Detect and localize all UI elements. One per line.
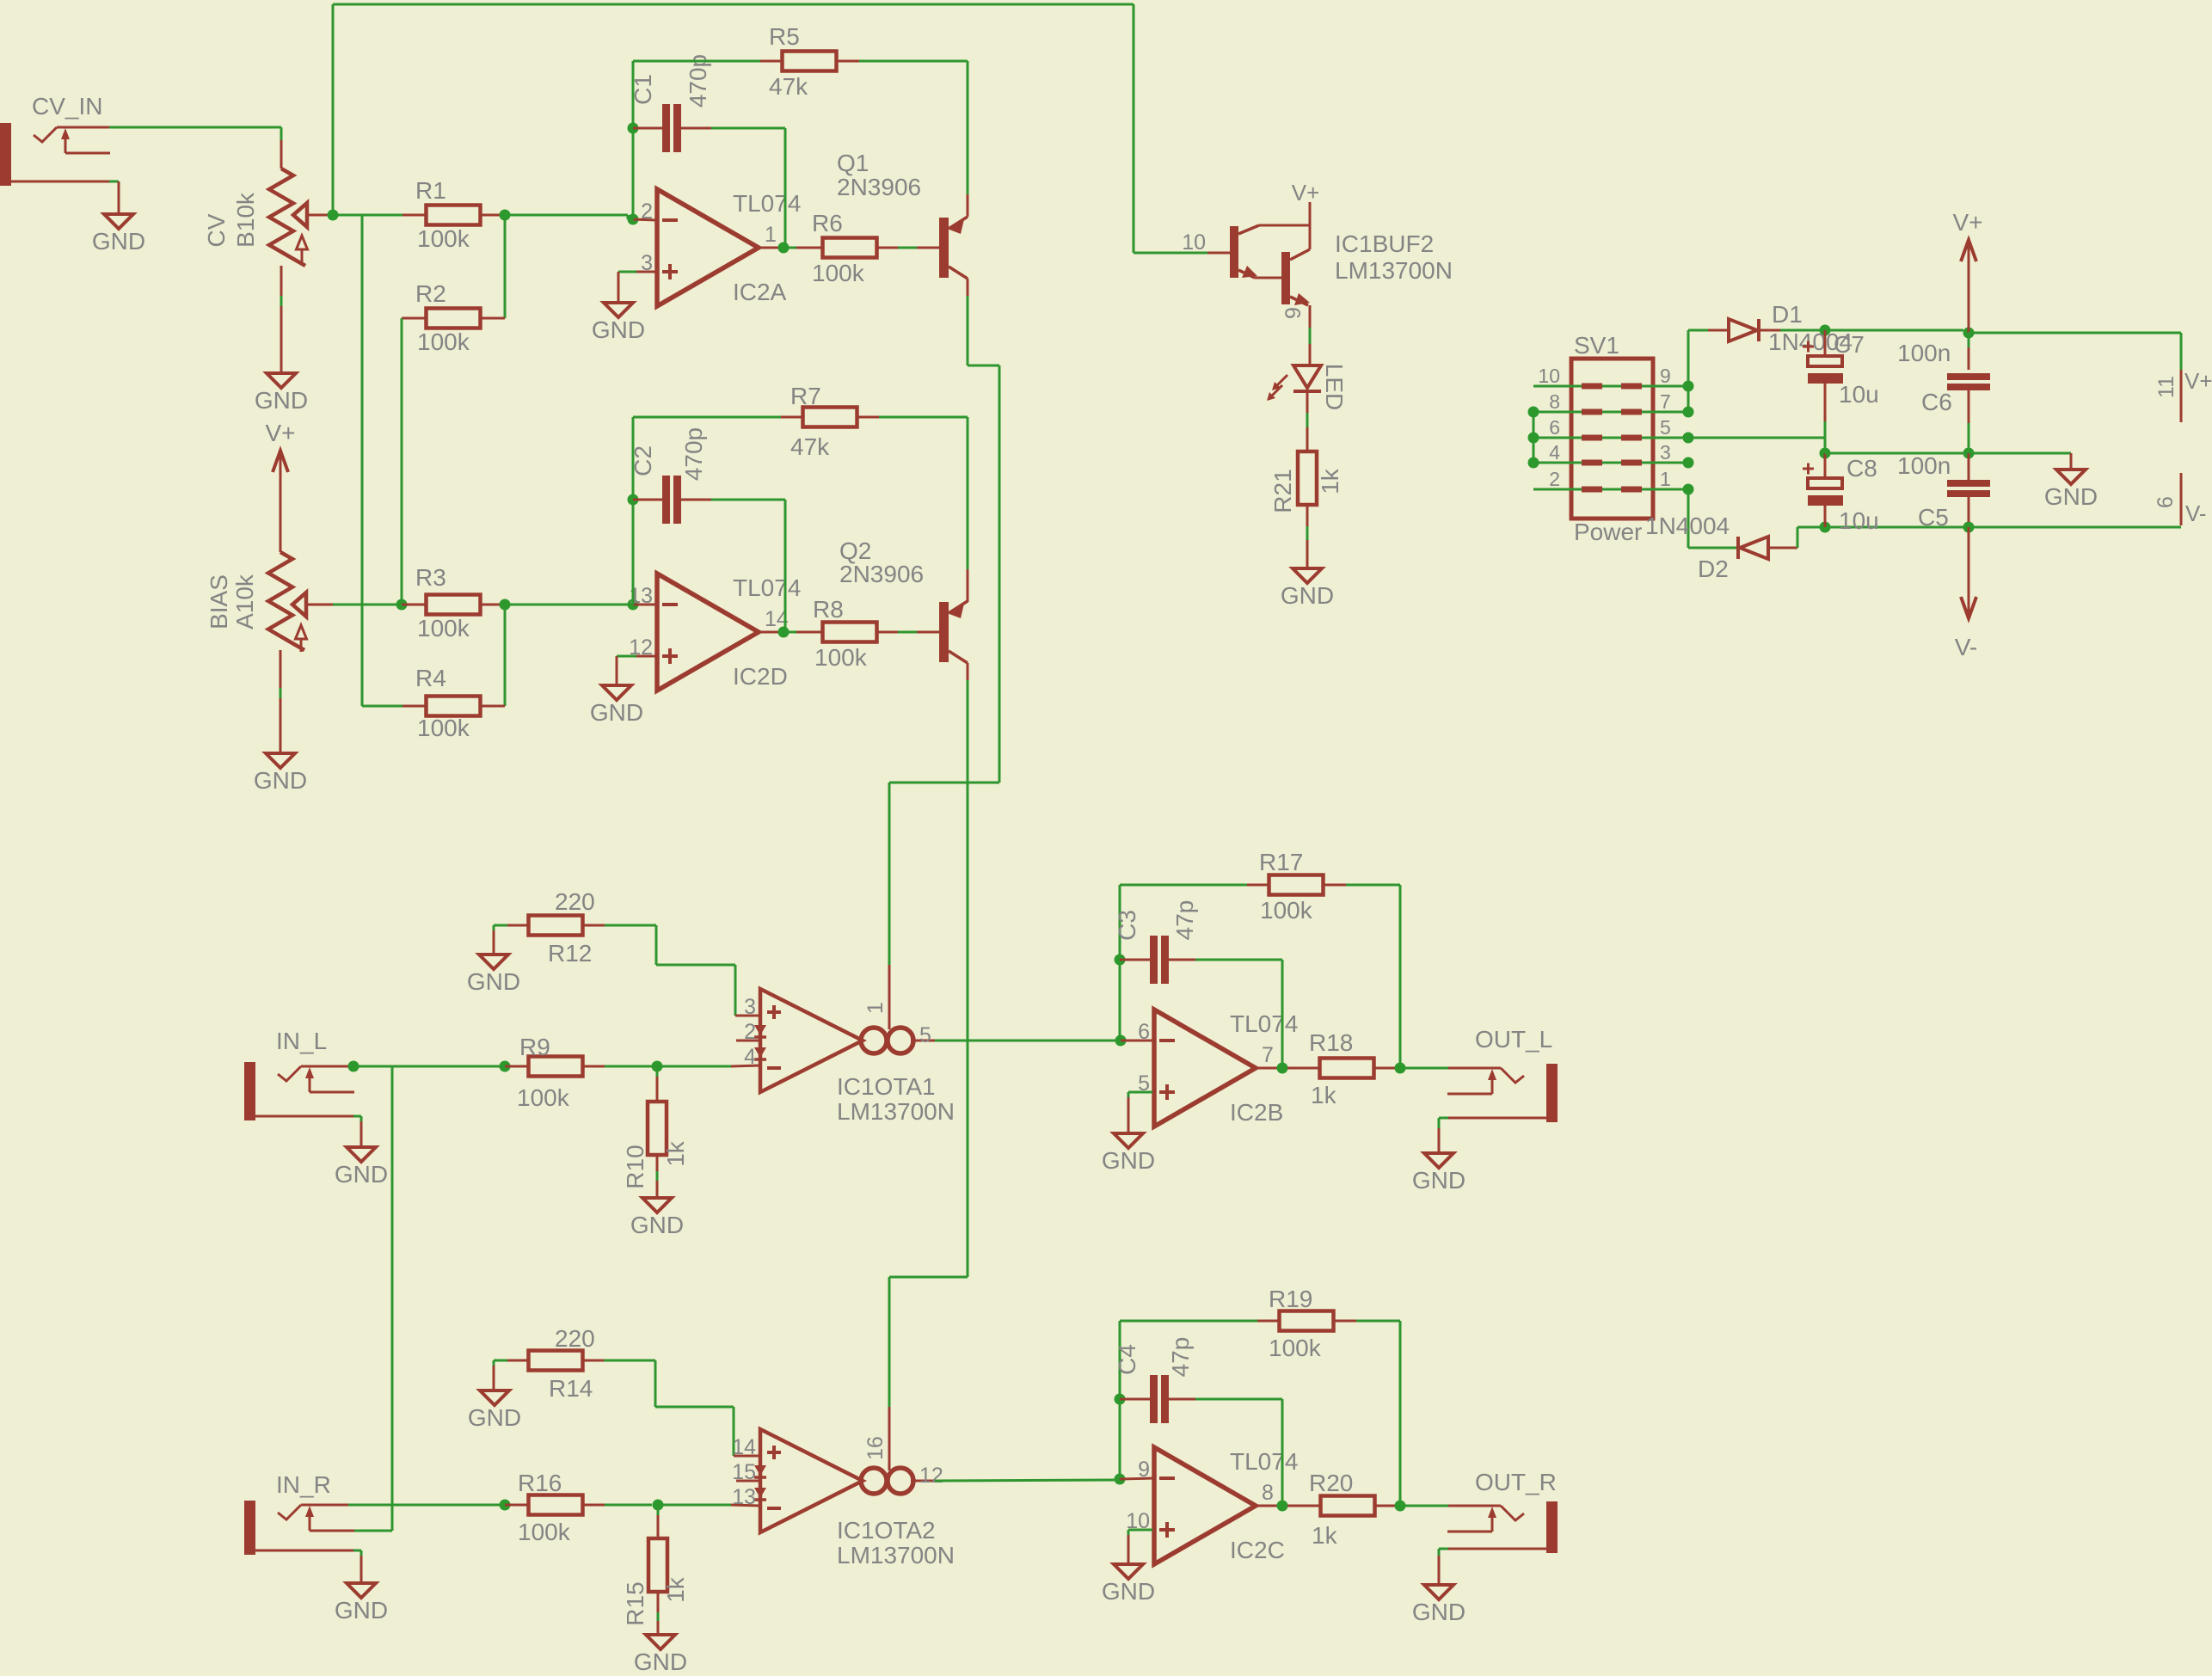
svg-text:GND: GND xyxy=(590,699,643,726)
svg-text:220: 220 xyxy=(555,1325,595,1352)
svg-text:7: 7 xyxy=(1660,390,1671,413)
svg-text:SV1: SV1 xyxy=(1574,332,1619,359)
svg-text:C8: C8 xyxy=(1846,455,1877,482)
svg-text:V-: V- xyxy=(1955,634,1977,660)
svg-text:100k: 100k xyxy=(517,1084,570,1111)
svg-text:C4: C4 xyxy=(1114,1344,1140,1375)
svg-text:GND: GND xyxy=(1281,582,1334,609)
svg-text:GND: GND xyxy=(2044,483,2098,510)
svg-text:100k: 100k xyxy=(417,615,470,642)
svg-text:2: 2 xyxy=(1549,468,1560,490)
svg-text:IN_L: IN_L xyxy=(276,1028,327,1054)
svg-text:R18: R18 xyxy=(1309,1029,1353,1056)
svg-text:47p: 47p xyxy=(1167,1337,1194,1378)
svg-text:47k: 47k xyxy=(769,73,808,100)
svg-text:GND: GND xyxy=(1412,1167,1465,1194)
svg-text:5: 5 xyxy=(1660,416,1671,439)
svg-text:V+: V+ xyxy=(2184,368,2212,394)
svg-text:3: 3 xyxy=(744,995,756,1019)
svg-text:9: 9 xyxy=(1281,307,1306,319)
svg-text:1k: 1k xyxy=(1312,1522,1338,1549)
svg-text:R21: R21 xyxy=(1269,469,1296,513)
svg-text:1N4004: 1N4004 xyxy=(1645,513,1730,539)
svg-text:D2: D2 xyxy=(1698,556,1729,582)
svg-text:100n: 100n xyxy=(1897,340,1951,366)
svg-text:R14: R14 xyxy=(549,1375,593,1402)
svg-text:GND: GND xyxy=(630,1212,684,1238)
svg-text:1k: 1k xyxy=(1317,468,1343,494)
svg-text:R15: R15 xyxy=(622,1581,648,1625)
svg-text:C1: C1 xyxy=(630,74,656,105)
svg-text:R7: R7 xyxy=(790,383,821,409)
svg-text:B10k: B10k xyxy=(232,192,259,248)
svg-text:GND: GND xyxy=(335,1161,388,1188)
svg-text:4: 4 xyxy=(1549,441,1560,464)
svg-text:47k: 47k xyxy=(790,433,830,460)
svg-text:GND: GND xyxy=(92,228,145,255)
svg-text:16: 16 xyxy=(863,1436,888,1460)
svg-text:220: 220 xyxy=(555,888,595,915)
svg-text:A10k: A10k xyxy=(231,574,258,629)
svg-text:R10: R10 xyxy=(622,1145,648,1188)
svg-text:GND: GND xyxy=(255,387,308,414)
svg-text:R8: R8 xyxy=(813,596,844,623)
svg-text:13: 13 xyxy=(732,1485,756,1509)
svg-text:2N3906: 2N3906 xyxy=(837,174,921,200)
svg-text:10u: 10u xyxy=(1839,381,1879,408)
svg-text:GND: GND xyxy=(592,316,645,343)
svg-text:100k: 100k xyxy=(417,715,470,741)
svg-text:1k: 1k xyxy=(662,1576,689,1603)
svg-text:IC1BUF2: IC1BUF2 xyxy=(1335,230,1434,257)
svg-text:100k: 100k xyxy=(518,1519,571,1545)
svg-text:1k: 1k xyxy=(662,1140,689,1167)
svg-text:Q1: Q1 xyxy=(837,150,869,176)
svg-text:C7: C7 xyxy=(1834,331,1865,358)
svg-text:6: 6 xyxy=(1549,416,1560,439)
svg-text:1: 1 xyxy=(765,223,777,247)
svg-text:5: 5 xyxy=(919,1023,931,1047)
svg-text:BIAS: BIAS xyxy=(206,574,232,629)
svg-text:R4: R4 xyxy=(415,665,446,691)
svg-text:14: 14 xyxy=(732,1435,756,1459)
svg-text:10: 10 xyxy=(1538,365,1560,387)
svg-text:1k: 1k xyxy=(1311,1082,1337,1108)
svg-text:1: 1 xyxy=(863,1002,888,1014)
svg-text:IC1OTA2: IC1OTA2 xyxy=(837,1517,936,1544)
svg-text:IC2B: IC2B xyxy=(1230,1099,1283,1126)
svg-text:LM13700N: LM13700N xyxy=(837,1542,955,1569)
svg-text:R20: R20 xyxy=(1309,1470,1353,1496)
svg-text:12: 12 xyxy=(919,1464,943,1488)
svg-text:47p: 47p xyxy=(1171,900,1198,941)
svg-text:R1: R1 xyxy=(415,177,446,204)
svg-text:R6: R6 xyxy=(812,210,843,236)
svg-text:CV_IN: CV_IN xyxy=(32,93,102,120)
svg-text:15: 15 xyxy=(732,1460,756,1484)
svg-text:IC2D: IC2D xyxy=(733,663,788,690)
svg-text:V+: V+ xyxy=(1952,209,1982,236)
svg-text:LED: LED xyxy=(1321,364,1348,410)
svg-text:R9: R9 xyxy=(519,1034,550,1060)
svg-text:CV: CV xyxy=(203,213,230,247)
svg-text:100k: 100k xyxy=(417,225,470,252)
svg-text:C3: C3 xyxy=(1114,910,1140,941)
svg-text:GND: GND xyxy=(467,968,520,995)
svg-text:11: 11 xyxy=(2154,376,2178,398)
svg-text:7: 7 xyxy=(1262,1043,1274,1067)
svg-text:100k: 100k xyxy=(1260,897,1313,924)
svg-text:C2: C2 xyxy=(630,445,656,476)
svg-text:C5: C5 xyxy=(1918,504,1949,531)
svg-text:IN_R: IN_R xyxy=(276,1471,331,1498)
svg-text:TL074: TL074 xyxy=(1230,1448,1298,1475)
svg-text:Power: Power xyxy=(1574,519,1642,545)
svg-text:470p: 470p xyxy=(680,427,707,481)
svg-text:GND: GND xyxy=(468,1404,521,1431)
svg-text:R16: R16 xyxy=(518,1470,562,1496)
svg-text:GND: GND xyxy=(335,1597,388,1624)
svg-text:R17: R17 xyxy=(1259,849,1303,875)
svg-text:IC2C: IC2C xyxy=(1230,1537,1285,1563)
svg-text:OUT_L: OUT_L xyxy=(1475,1026,1552,1053)
svg-text:100n: 100n xyxy=(1897,452,1951,479)
svg-text:8: 8 xyxy=(1549,390,1560,413)
svg-text:100k: 100k xyxy=(1269,1335,1322,1361)
svg-text:TL074: TL074 xyxy=(1230,1010,1298,1037)
svg-text:1: 1 xyxy=(1660,468,1671,490)
svg-text:10u: 10u xyxy=(1839,507,1879,534)
svg-text:GND: GND xyxy=(1102,1147,1155,1174)
svg-text:D1: D1 xyxy=(1772,301,1803,328)
svg-text:8: 8 xyxy=(1262,1481,1274,1505)
svg-text:OUT_R: OUT_R xyxy=(1475,1469,1557,1495)
svg-text:100k: 100k xyxy=(417,328,470,355)
svg-text:R2: R2 xyxy=(415,280,446,307)
svg-text:2: 2 xyxy=(744,1020,756,1044)
svg-text:100k: 100k xyxy=(814,644,868,671)
svg-text:10: 10 xyxy=(1182,230,1206,255)
svg-text:R3: R3 xyxy=(415,564,446,591)
svg-text:4: 4 xyxy=(744,1045,756,1069)
svg-text:V-: V- xyxy=(2185,500,2207,526)
svg-text:R19: R19 xyxy=(1269,1286,1312,1312)
svg-text:100k: 100k xyxy=(812,260,865,286)
svg-text:GND: GND xyxy=(1102,1578,1155,1605)
svg-text:LM13700N: LM13700N xyxy=(837,1098,955,1125)
svg-text:GND: GND xyxy=(1412,1599,1465,1625)
svg-text:IC1OTA1: IC1OTA1 xyxy=(837,1073,936,1100)
svg-text:TL074: TL074 xyxy=(733,190,801,217)
svg-text:LM13700N: LM13700N xyxy=(1335,257,1453,284)
svg-text:V+: V+ xyxy=(1292,180,1320,206)
svg-text:GND: GND xyxy=(254,767,307,794)
svg-text:TL074: TL074 xyxy=(733,574,801,601)
svg-text:R12: R12 xyxy=(548,940,592,967)
svg-text:9: 9 xyxy=(1660,365,1671,387)
svg-text:GND: GND xyxy=(634,1648,687,1675)
svg-text:R5: R5 xyxy=(769,23,800,50)
svg-text:6: 6 xyxy=(2154,496,2178,508)
svg-text:3: 3 xyxy=(1660,441,1671,464)
svg-text:V+: V+ xyxy=(265,420,295,446)
svg-text:IC2A: IC2A xyxy=(733,279,787,305)
svg-text:C6: C6 xyxy=(1921,389,1952,415)
svg-text:2N3906: 2N3906 xyxy=(839,561,924,587)
